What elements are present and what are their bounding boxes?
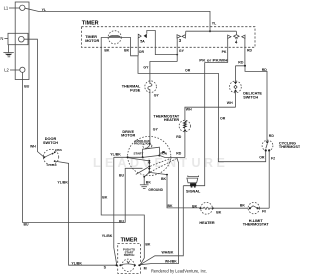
svg-text:PK: PK: [222, 50, 227, 54]
wire BK timer motor left lead to push-to-start M: [101, 37, 151, 264]
svg-text:RD: RD: [269, 134, 275, 138]
svg-text:F2: F2: [271, 156, 275, 160]
svg-text:L2: L2: [4, 68, 9, 73]
svg-text:BK: BK: [124, 48, 130, 52]
wire BU from L2 to drive motor: [23, 72, 143, 226]
push-to-start switch S3: [104, 259, 147, 271]
timer motor M1: [85, 31, 130, 44]
svg-text:U: U: [192, 156, 201, 170]
wire BK motor to heater: [149, 172, 200, 208]
svg-text:L: L: [93, 156, 101, 170]
svg-text:GY: GY: [154, 94, 160, 98]
timer box (dashed): [81, 21, 255, 48]
wire YL/BK door switch to push-to-start: [55, 161, 117, 265]
svg-text:WH: WH: [227, 101, 233, 105]
svg-text:E: E: [105, 156, 113, 170]
svg-text:BK: BK: [161, 177, 167, 181]
svg-text:BU: BU: [24, 222, 30, 226]
svg-text:GY: GY: [153, 128, 159, 132]
svg-text:GY: GY: [143, 65, 149, 69]
svg-text:L1: L1: [4, 6, 9, 11]
svg-text:BK: BK: [146, 180, 152, 184]
centrifugal switch: [128, 158, 177, 175]
svg-text:TIMER: TIMER: [82, 21, 99, 27]
svg-text:BK: BK: [145, 243, 151, 247]
wire OR from timer to cycling thermostat: [138, 56, 266, 162]
door switch S1: [43, 137, 62, 167]
svg-text:MOTOR: MOTOR: [121, 134, 135, 138]
svg-text:PROTECTOR: PROTECTOR: [134, 142, 151, 146]
heater R1: [199, 202, 221, 224]
cycling thermostat S5: [262, 140, 305, 208]
svg-text:OR: OR: [139, 50, 145, 54]
wire PK from contact 4 to signal: [183, 59, 228, 186]
timer contact 3: [177, 35, 185, 62]
svg-text:THERMOSTAT: THERMOSTAT: [279, 145, 300, 149]
svg-text:SWITCH: SWITCH: [243, 95, 258, 99]
thermal fuse F1: [122, 81, 160, 98]
svg-text:R: R: [204, 156, 213, 170]
svg-text:THERMOSTAT: THERMOSTAT: [243, 223, 269, 227]
motor ground: [140, 172, 164, 191]
svg-text:BK: BK: [216, 210, 222, 214]
svg-text:WH/BK: WH/BK: [162, 251, 174, 255]
svg-text:WH/BK: WH/BK: [165, 260, 177, 264]
wire WH from N to door switch: [24, 39, 44, 157]
svg-text:START: START: [134, 152, 144, 156]
timer contact 5A: [138, 31, 178, 56]
svg-text:CLOSED: CLOSED: [47, 164, 57, 167]
svg-text:HEATER: HEATER: [199, 221, 215, 225]
svg-text:PK or PK/WH: PK or PK/WH: [199, 59, 228, 63]
svg-text:RD: RD: [238, 60, 244, 64]
wire RD run winding to thermostat heater: [159, 151, 185, 157]
svg-text:MOTOR: MOTOR: [85, 39, 99, 43]
wire GY from contact 3 to thermal fuse: [143, 62, 177, 82]
overload protector: [134, 136, 152, 148]
svg-text:RD: RD: [247, 49, 253, 53]
svg-text:RD: RD: [262, 68, 268, 72]
terminal L1: [4, 5, 25, 11]
wire GY thermal fuse to drive motor: [150, 93, 159, 137]
svg-text:RD: RD: [176, 135, 182, 139]
wire YL branch to contacts 3 and 4: [186, 31, 237, 34]
svg-text:TIMER: TIMER: [121, 238, 138, 244]
svg-text:BU: BU: [24, 85, 30, 89]
wire BK timer motor right lead: [124, 37, 138, 55]
wire YL/BK to drive motor: [102, 153, 143, 265]
svg-text:RD: RD: [176, 151, 182, 155]
svg-text:T: T: [180, 156, 188, 170]
svg-text:YL/BK: YL/BK: [110, 153, 121, 157]
terminal N: [0, 36, 24, 42]
terminal block: [8, 2, 29, 80]
svg-text:HEATER: HEATER: [164, 118, 180, 122]
svg-text:GROUND: GROUND: [148, 188, 163, 192]
wire YL from L1 to timer: [25, 8, 217, 32]
svg-text:OR: OR: [259, 156, 265, 160]
svg-text:YL/BK: YL/BK: [57, 181, 68, 185]
svg-text:SWITCH: SWITCH: [124, 253, 135, 257]
svg-text:BU: BU: [119, 174, 125, 178]
ground (service ground at N): [3, 45, 13, 57]
svg-text:OPEN: OPEN: [55, 149, 62, 152]
svg-text:BU: BU: [119, 220, 125, 224]
svg-text:OR: OR: [220, 117, 226, 121]
watermark: [93, 156, 225, 170]
signal buzzer: [186, 176, 201, 194]
svg-text:A: A: [118, 156, 127, 170]
svg-text:N: N: [0, 36, 3, 41]
svg-text:BK: BK: [102, 195, 108, 199]
rendered by credit: [151, 269, 207, 274]
h-limit thermostat S6: [243, 202, 269, 226]
svg-text:YL/BK: YL/BK: [71, 262, 82, 266]
thermostat heater R2: [153, 114, 190, 157]
push-to-start timer box: [118, 238, 141, 274]
wire WH delicate switch to thermostat heater: [185, 107, 236, 120]
svg-text:SWITCH: SWITCH: [43, 141, 58, 145]
svg-text:BK: BK: [240, 203, 246, 207]
svg-text:YL/BK: YL/BK: [102, 234, 113, 238]
svg-text:F0: F0: [262, 210, 266, 214]
svg-text:WH: WH: [30, 144, 36, 148]
svg-text:FUSE: FUSE: [130, 89, 141, 93]
wire RD from contact 4 to delicate switch and cycling thermostat: [236, 60, 275, 140]
timer contact 4: [222, 35, 253, 66]
wire WH/BK motor to push-to-start (M): [140, 158, 183, 265]
svg-text:Rendered by LeadVenture, Inc.: Rendered by LeadVenture, Inc.: [151, 269, 207, 274]
terminal L2: [4, 67, 25, 72]
wire BK heater to h-limit: [213, 203, 248, 208]
svg-text:BK: BK: [104, 48, 110, 52]
svg-text:WH: WH: [186, 108, 192, 112]
svg-text:GY: GY: [179, 49, 185, 53]
svg-text:SIGNAL: SIGNAL: [186, 190, 201, 194]
svg-text:OR: OR: [185, 68, 191, 72]
svg-text:BK: BK: [168, 204, 174, 208]
svg-text:5A: 5A: [140, 39, 145, 43]
drive motor B1: [121, 130, 171, 176]
svg-text:E: E: [217, 156, 225, 170]
svg-text:M: M: [144, 266, 147, 270]
delicate switch S2: [227, 66, 263, 107]
svg-text:BK: BK: [192, 204, 198, 208]
start winding: [134, 147, 167, 158]
